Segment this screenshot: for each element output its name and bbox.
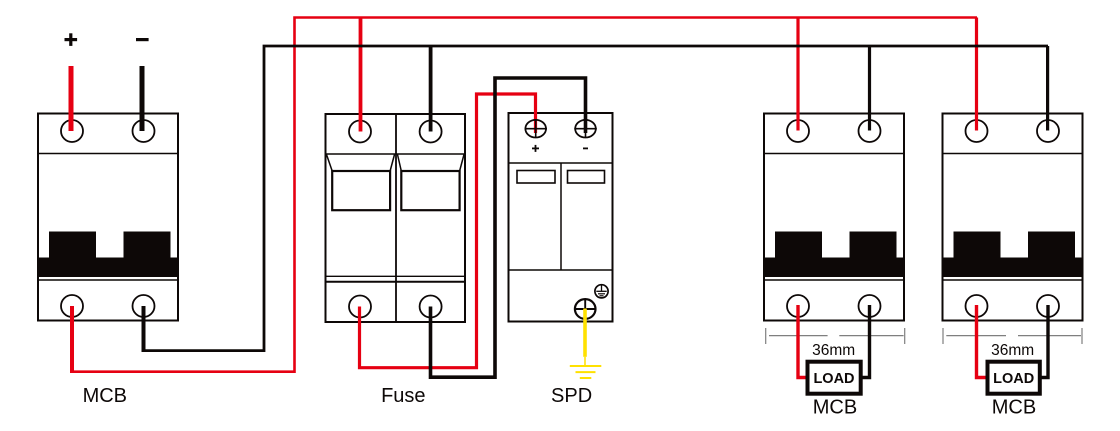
svg-text:MCB: MCB — [813, 397, 857, 419]
svg-text:Fuse: Fuse — [381, 385, 425, 407]
svg-text:SPD: SPD — [551, 385, 592, 407]
svg-text:36mm: 36mm — [812, 342, 855, 359]
svg-text:LOAD: LOAD — [993, 371, 1034, 387]
svg-text:MCB: MCB — [992, 397, 1036, 419]
svg-text:36mm: 36mm — [991, 342, 1034, 359]
svg-text:LOAD: LOAD — [813, 371, 854, 387]
svg-text:MCB: MCB — [83, 385, 127, 407]
